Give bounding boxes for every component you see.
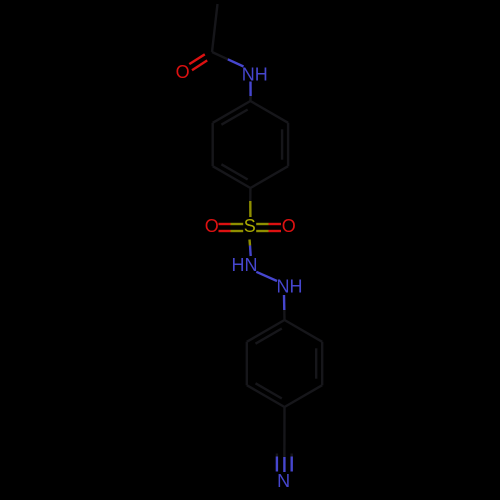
svg-text:N: N [277,471,290,491]
svg-text:NH: NH [242,65,268,85]
svg-text:O: O [176,62,190,82]
benzene ring 1 (central phenylene with aromatic double bonds) [213,101,288,188]
bond C4(ring2)-C (nitrile carbon) [283,407,286,451]
double bond S=O right [256,223,268,225]
bond N-N (hydrazine) [256,272,277,281]
bond C4(ring1)-S [249,188,251,201]
bond N-C1 of ring 2 [283,295,286,310]
bond C-N (amide) [212,52,228,59]
svg-text:HN: HN [232,255,258,275]
bond S-N (sulfonyl to hydrazide N1) [248,240,251,246]
svg-text:O: O [282,216,296,236]
bond C-CH3 (acetyl methyl) [212,4,218,52]
svg-text:NH: NH [277,277,303,297]
double bond C=O (acetamide carbonyl) [189,54,205,64]
benzene ring 2 (cyanophenyl ring with aromatic double bonds) [247,320,322,407]
double bond S=O left [231,223,244,225]
svg-text:O: O [205,216,219,236]
bond N-C1 of ring 1 [249,82,252,97]
svg-text:S: S [244,216,256,236]
triple bond C#N (nitrile) [283,451,285,458]
